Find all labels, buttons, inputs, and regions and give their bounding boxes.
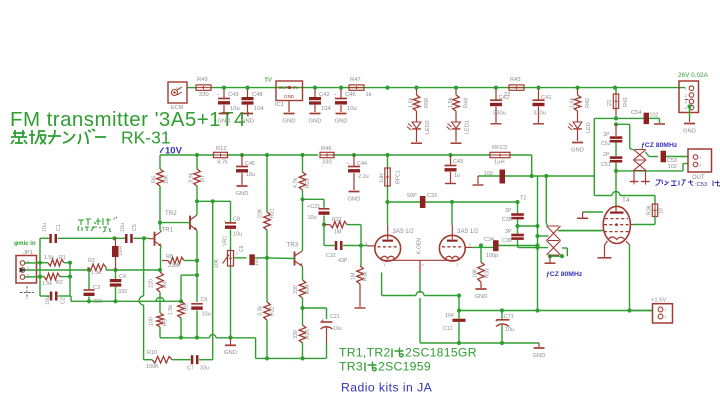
svg-text::C53: :C53 [695,182,707,188]
svg-text:OUT: OUT [279,85,289,90]
tube T4 1T4 [603,206,630,243]
svg-text:GND: GND [348,196,361,202]
svg-text:33u: 33u [200,366,209,372]
svg-text:R43: R43 [510,77,521,83]
resistor R23 [302,155,304,172]
resistor R32 [360,246,362,267]
capacitor C49 [223,90,225,99]
tube V1a 3A5 1/2 [375,235,401,261]
svg-text:332: 332 [118,289,127,295]
wire C51 to OUT connector [616,170,683,172]
node C52 top [614,122,618,126]
svg-text:220: 220 [149,279,155,288]
svg-text:50P: 50P [407,193,417,199]
svg-text:100p: 100p [486,253,498,259]
capacitor C54 [616,117,644,119]
svg-text:43P: 43P [338,258,348,264]
svg-text:-: - [224,219,226,225]
tube filament bus [381,258,383,260]
svg-text:C12: C12 [443,326,453,332]
svg-text:1.5k: 1.5k [168,305,174,315]
label antenna note [656,180,694,186]
wire T1 bottom [548,254,552,258]
resistor R2 [44,273,60,280]
wire TR2 collector feedback vertical [212,201,214,359]
transistor TR1 [154,232,156,246]
ground under R33 [476,288,487,290]
svg-text:T2: T2 [520,196,526,202]
svg-text:C33: C33 [427,193,437,199]
ground stubs under coil X2 [630,181,639,183]
svg-text:1uH: 1uH [494,160,505,166]
capacitor C8 [230,201,232,222]
svg-text:-: - [334,92,336,98]
connector JP1 mic input [16,256,37,284]
resistor R24 [299,280,306,298]
svg-text:22: 22 [607,100,613,106]
node rail corner filament [530,174,534,178]
svg-text:3A5 1/2: 3A5 1/2 [457,228,479,235]
ground under LED3 [572,142,583,144]
svg-text:TR3: TR3 [339,360,363,374]
capacitor C46 [340,90,342,99]
svg-text:TR2: TR2 [165,210,177,217]
svg-text:220k: 220k [168,263,180,269]
svg-text:330u: 330u [493,111,506,117]
svg-text:R22: R22 [270,306,276,316]
svg-text:R9: R9 [184,304,190,311]
resistor R50 [413,95,420,111]
svg-text:IN: IN [293,85,298,90]
svg-text:TR1: TR1 [162,227,174,234]
svg-text:330: 330 [199,92,209,98]
svg-text:P9: P9 [176,86,182,91]
svg-text:R21: R21 [270,208,276,218]
svg-text:104: 104 [321,106,331,112]
svg-text:1.5k: 1.5k [91,270,101,276]
wire JP1 pin3 [25,276,44,278]
title text kanji line RK-31 [11,130,46,144]
transformer T1 oscillator coil [547,226,561,255]
capacitor C36 [511,234,524,237]
svg-text:R32: R32 [363,271,369,281]
wire VR1 bottom to ground [230,266,232,338]
svg-text:102: 102 [668,164,677,170]
svg-text:C36: C36 [502,238,512,244]
wire anode feed [615,171,617,206]
resistor R5 [157,313,164,327]
svg-text:1.5k: 1.5k [448,97,454,108]
capacitor C34 [493,240,499,251]
svg-text:330: 330 [293,285,299,294]
svg-text:C8: C8 [233,217,240,223]
svg-text:R12: R12 [216,146,227,152]
svg-text:R24: R24 [305,284,311,294]
svg-text:1M: 1M [334,230,341,236]
capacitor C71 [501,311,503,320]
resistor R7 [194,169,201,186]
capacitor C33 [420,196,426,208]
svg-text:10: 10 [659,208,665,214]
potentiometer VR1 [228,251,234,267]
svg-text:C49: C49 [228,92,239,98]
svg-text:10u: 10u [230,106,240,112]
svg-text:-: - [217,92,219,98]
svg-text:R1: R1 [59,255,66,261]
tube T4 filament lead [626,241,630,245]
svg-text:330: 330 [293,330,299,339]
capacitor C1 [40,237,49,239]
resistor R43 [509,85,524,90]
svg-text:TR3: TR3 [287,242,299,249]
resistor R42 [574,95,581,111]
svg-text:103: 103 [484,171,493,177]
svg-text:GND: GND [224,350,237,356]
svg-text:R3: R3 [88,258,95,264]
origin cross marker [20,286,34,299]
svg-text:T4: T4 [622,197,630,204]
svg-text:R31: R31 [332,217,342,223]
svg-text:GND: GND [283,118,296,124]
svg-text:R23: R23 [305,178,311,188]
capacitor C7 [191,355,194,364]
svg-text:5V: 5V [265,78,273,84]
svg-text:10u: 10u [254,257,260,266]
capacitor C42 [314,90,316,98]
svg-text:C46: C46 [345,92,356,98]
svg-text:100K: 100K [146,364,159,370]
svg-text:3.9k: 3.9k [189,172,195,183]
svg-text:R7: R7 [201,175,207,182]
svg-text:C32: C32 [326,253,336,259]
svg-text:2SC1959: 2SC1959 [378,360,431,374]
svg-text:3P: 3P [505,208,512,214]
svg-text:C42: C42 [499,95,510,101]
capacitor C3 [88,270,90,290]
label 10V [160,148,164,153]
wire JP1 pin1 [25,262,48,264]
resistor R33 [480,246,482,263]
wire V1 cathode to C12 [458,296,460,311]
ground under C44 [349,191,360,193]
svg-text:R50: R50 [424,98,430,108]
svg-text:GND: GND [683,128,696,134]
svg-text:100: 100 [149,317,155,326]
capacitor C12 [458,311,460,319]
resistor R3 [87,267,89,270]
resistor R4 [157,272,164,292]
svg-text:10u: 10u [120,223,126,232]
resistor R9 [181,274,197,276]
svg-text:C3: C3 [93,285,100,291]
ground under C45 [237,185,248,187]
resistor R8 feedback [162,260,168,262]
wire R41 to left dropper [594,117,616,119]
svg-text:1M: 1M [351,273,357,280]
svg-text:φmic in: φmic in [14,241,36,247]
svg-text:3.3k: 3.3k [258,306,264,316]
capacitor C35 [511,213,524,216]
svg-text:C4: C4 [119,274,126,280]
wire 10V rail [160,154,214,156]
svg-text:RFC3: RFC3 [492,145,507,151]
svg-text:3A5 1/2: 3A5 1/2 [393,228,415,235]
ground under C54 [654,123,665,125]
svg-text:10u: 10u [347,106,357,112]
ground symbol G1 [230,338,232,345]
resistor R36 [652,204,657,217]
svg-text:4.7k: 4.7k [293,178,299,188]
svg-text:R49: R49 [197,77,208,83]
voltage regulator IC1 [276,81,303,101]
resistor R25 [302,308,304,325]
svg-text:10u: 10u [333,326,342,332]
svg-text:2: 2 [665,315,667,319]
inductor RFC3 [490,152,510,157]
svg-text:C34: C34 [484,237,494,243]
connector OUT [688,149,712,172]
wire filament feed to coil T1 [545,176,547,223]
wire C3 line hop over R4 [156,297,164,301]
wire grid V1a [361,245,367,247]
svg-text:OUT: OUT [692,175,705,181]
svg-text:TR1,TR2: TR1,TR2 [339,346,391,360]
wire grid return V1b [472,246,493,248]
wire RFC1 to tube anodes [385,200,389,204]
svg-text:18K: 18K [473,268,479,278]
svg-text:GND: GND [236,191,249,197]
svg-text:C6: C6 [201,297,208,303]
svg-text:R42: R42 [585,98,591,108]
svg-text:GND: GND [241,118,254,124]
svg-text:2P: 2P [603,152,610,158]
LED1 [455,111,457,122]
wire T1 left lower [518,247,548,249]
svg-text:R10: R10 [147,350,157,356]
svg-text:R46: R46 [321,146,332,152]
svg-text:R4: R4 [163,281,169,288]
ground under bottom rail [538,343,540,347]
svg-text:C45: C45 [245,161,255,167]
ferrite bead L1 [112,246,119,257]
svg-text:C48: C48 [252,92,263,98]
svg-text:GND: GND [335,118,348,124]
svg-text:330u: 330u [533,111,546,117]
wire tube cathode returns [381,273,383,296]
svg-text:LED: LED [586,122,592,133]
svg-text:104: 104 [445,313,454,319]
tube V1b 3A5 1/2 [439,235,465,261]
connector ECM microphone [168,82,187,103]
connector X1 power input [679,81,699,113]
ground rail G1 [160,337,210,339]
svg-text:IC1: IC1 [275,102,284,108]
svg-text:C54: C54 [631,110,642,116]
wire +1.5V line [459,310,653,312]
svg-text:GND: GND [571,147,584,153]
svg-text:22K: 22K [258,208,264,218]
transistor TR3 [294,252,296,266]
wire screen feed [594,195,612,197]
svg-text:R5: R5 [163,319,169,326]
capacitor C4 [115,270,117,279]
wire TR2 collector node [197,200,231,202]
wire input loop verticals [39,238,41,296]
wire tank tap to coil [616,123,630,125]
svg-text:3P: 3P [505,229,512,235]
svg-text:GND: GND [475,294,488,300]
svg-text:1mH: 1mH [118,246,123,256]
resistor R41 [615,88,617,94]
svg-text:R33: R33 [485,268,491,278]
svg-text:Radio kits in JA: Radio kits in JA [341,381,433,395]
svg-text:C21: C21 [330,314,340,320]
resistor R21 [266,155,268,212]
svg-text:GND: GND [309,118,322,124]
svg-text:10u: 10u [246,172,255,178]
inductor RFC1 [387,155,389,168]
resistor R6 [159,168,161,170]
capacitor C53 [649,156,658,158]
ground rail bottom middle [420,342,539,344]
svg-text:C44: C44 [357,161,367,167]
resistor R22 [266,258,268,302]
wire VR1 wiper [234,257,247,259]
svg-text:C51: C51 [601,162,611,168]
svg-text:GND: GND [533,353,546,359]
wire feedback vertical left [143,238,145,296]
ground under T1 [549,256,551,262]
svg-text:4.7k: 4.7k [217,160,228,166]
svg-text:R6: R6 [152,176,158,183]
svg-text:10u: 10u [202,312,211,318]
svg-text:2.2u: 2.2u [358,174,369,180]
tube T4 cathode ground [605,241,608,245]
svg-text:1.5k: 1.5k [42,281,52,287]
feedback network R10 C7 [144,359,152,361]
LED3 [577,111,579,122]
ground under C48 [242,113,253,115]
capacitor C48 [247,90,249,98]
resistor R47 [349,85,364,90]
node R41 bottom [614,116,618,120]
resistor R46 [320,152,334,157]
svg-text:2: 2 [236,252,238,256]
svg-text:10u: 10u [45,296,51,305]
resistor R1 [48,259,64,266]
svg-text:C43: C43 [453,159,463,165]
capacitor C44 [353,155,355,166]
svg-text:R47: R47 [350,77,361,83]
capacitor C51 trimmer [610,156,623,159]
ground under C49 [219,113,230,115]
svg-text:GND: GND [218,118,231,124]
connector JP2 +1.5V [630,310,653,312]
svg-text:C7: C7 [187,366,194,372]
resistor R10 [152,356,172,363]
svg-text:330: 330 [322,160,332,166]
resistor R12 [214,152,228,157]
resistor R49 [196,85,211,90]
svg-text:3P: 3P [603,132,610,138]
svg-text:26V 0.02A: 26V 0.02A [678,72,709,79]
wire C35-C36 tap to T1 [518,225,538,227]
wire JP1 pin2 audio line [25,269,88,271]
svg-text:JP1: JP1 [23,250,33,256]
capacitor C39 103 [478,175,500,177]
capacitor C45 [241,155,243,166]
LED2 [416,111,418,122]
ground under C46 [336,113,347,115]
wire 12V input rail [187,87,196,89]
svg-text:R2: R2 [56,280,63,286]
svg-text:1u: 1u [454,173,460,179]
wire T1 secondary to grid [559,230,602,232]
wire emitter node TR3 [303,307,327,309]
svg-text:10u: 10u [308,215,317,221]
capacitor C43 [450,155,452,165]
label ferrite beads note [78,217,117,232]
wire T1 left middle [538,235,549,237]
svg-text:+1.5V: +1.5V [651,298,666,304]
svg-text:R41: R41 [623,97,629,107]
svg-text:C52: C52 [601,141,611,147]
capacitor C6 [191,303,203,305]
svg-text:10k: 10k [164,175,170,184]
tube T4 grid wire [558,230,603,232]
svg-text:10K: 10K [214,258,220,268]
svg-text:R8: R8 [166,254,173,260]
svg-text:1.5k: 1.5k [409,97,415,108]
svg-text:+C31: +C31 [307,204,320,210]
svg-text:102: 102 [650,113,659,119]
svg-text:C42: C42 [319,92,330,98]
svg-text:RK-31: RK-31 [121,128,171,148]
capacitor C2 [40,295,50,297]
svg-text:2SC1815GR: 2SC1815GR [405,346,477,360]
svg-text:ECM: ECM [171,105,184,111]
capacitor C9 [249,254,254,265]
svg-text:ƒCZ 80MHz: ƒCZ 80MHz [641,142,678,149]
resistor R44 [453,95,460,111]
resistor R31 [324,224,330,226]
svg-text:LED2: LED2 [425,120,431,134]
svg-text:C5: C5 [132,224,138,231]
coil X2 80MHz tank [634,150,647,171]
svg-text:1.5k: 1.5k [44,255,54,261]
svg-text:+: + [321,318,324,324]
svg-text:1: 1 [665,308,667,312]
tube T4 grid2 ground [583,211,603,213]
capacitor C32 [323,225,325,246]
svg-text:K-GEN: K-GEN [417,238,423,254]
svg-text:10u: 10u [505,327,514,333]
capacitor C5 [125,234,128,243]
svg-text:104: 104 [254,106,264,112]
svg-text:C41: C41 [541,95,552,101]
ground under IC1 [288,101,290,113]
svg-text:C1: C1 [56,224,62,231]
svg-text:RFC1: RFC1 [396,170,402,184]
svg-text:VR1: VR1 [223,236,229,246]
capacitor C42 output elco [495,90,497,100]
svg-text:1uH: 1uH [379,173,385,183]
svg-text:C71: C71 [504,314,514,320]
wire C31 branch [303,198,325,200]
svg-text:332: 332 [93,299,102,305]
wire connector pin4 to ground [687,104,691,108]
svg-text:R36: R36 [647,205,653,215]
